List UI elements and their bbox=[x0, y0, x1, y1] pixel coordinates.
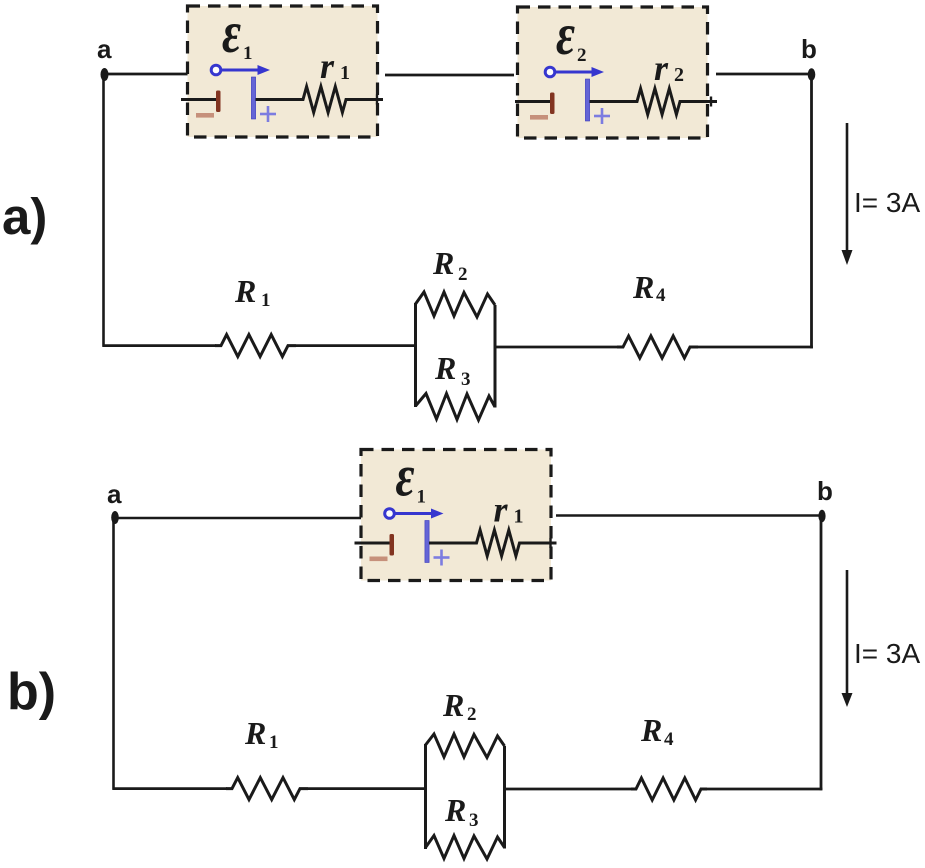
node a dot (circuit b) bbox=[111, 511, 119, 524]
battery negative plate (brick bar) bbox=[216, 91, 221, 113]
node b dot (circuit a) bbox=[808, 68, 816, 80]
minus sign (brick) bbox=[196, 113, 214, 118]
battery negative lead wire bbox=[181, 98, 217, 101]
svg-text:3: 3 bbox=[469, 810, 479, 831]
svg-text:r: r bbox=[494, 490, 509, 530]
bottom branch wire left (circuit a) bbox=[103, 344, 217, 347]
EMF box background and dashed border bbox=[361, 450, 551, 581]
svg-text:b: b bbox=[817, 476, 833, 506]
svg-text:R: R bbox=[234, 273, 256, 309]
svg-text:2: 2 bbox=[458, 264, 468, 285]
EMF source 2 (epsilon2, r2) bbox=[515, 3, 717, 138]
svg-text:r: r bbox=[320, 46, 335, 86]
wire left vertical (circuit b) bbox=[112, 520, 115, 790]
battery positive plate (blue bar) bbox=[425, 521, 429, 563]
svg-text:a): a) bbox=[2, 188, 47, 245]
battery negative lead wire bbox=[355, 542, 391, 545]
emf direction arrow (blue) bbox=[545, 67, 555, 77]
EMF source 1 (epsilon1, r1) bbox=[181, 1, 383, 137]
wire R4 to right vertical (circuit b) bbox=[707, 788, 822, 791]
wire R4 to right vertical (circuit a) bbox=[698, 346, 813, 349]
svg-text:2: 2 bbox=[467, 704, 477, 725]
svg-text:r: r bbox=[654, 48, 669, 88]
internal resistance lead and zigzag r1 bbox=[429, 542, 477, 545]
wire EMF box to node b (circuit b) bbox=[556, 514, 820, 517]
emf direction arrow (blue) bbox=[211, 65, 221, 75]
svg-text:a: a bbox=[97, 34, 112, 64]
wire parallel block to R4 (circuit a) bbox=[495, 346, 618, 349]
svg-text:1: 1 bbox=[417, 487, 427, 508]
parallel block right vertical (circuit b) bbox=[503, 746, 506, 849]
wire right vertical (circuit b) bbox=[820, 519, 823, 790]
battery negative plate (brick bar) bbox=[390, 534, 395, 556]
emf label epsilon 1 bbox=[222, 1, 241, 65]
resistor R4 (circuit a) bbox=[617, 336, 698, 358]
emf direction arrow (blue) bbox=[385, 509, 395, 519]
svg-text:1: 1 bbox=[261, 290, 271, 311]
minus sign (brick) bbox=[530, 115, 548, 120]
plus sign (blue) bbox=[594, 115, 610, 118]
svg-text:2: 2 bbox=[674, 64, 684, 86]
svg-text:R: R bbox=[632, 269, 654, 305]
minus sign (brick) bbox=[370, 557, 388, 562]
plus sign (blue) bbox=[434, 556, 450, 559]
svg-text:1: 1 bbox=[243, 43, 253, 64]
svg-text:ε: ε bbox=[556, 3, 575, 67]
wire R1 to parallel block (circuit a) bbox=[296, 344, 416, 347]
EMF box background and dashed border bbox=[518, 7, 708, 138]
bottom branch wire left (circuit b) bbox=[113, 787, 228, 790]
resistor R4 (circuit b) bbox=[631, 778, 707, 800]
resistor R1 (circuit b) bbox=[226, 778, 308, 800]
wire node a to EMF box (circuit b) bbox=[117, 517, 362, 520]
svg-text:3: 3 bbox=[461, 369, 471, 390]
parallel block left vertical (circuit a) bbox=[414, 303, 417, 407]
svg-text:a: a bbox=[107, 479, 122, 509]
current arrow (circuit a) bbox=[846, 123, 849, 253]
parallel block left vertical (circuit b) bbox=[424, 744, 427, 849]
svg-text:4: 4 bbox=[656, 285, 666, 306]
resistor R2 zigzag top branch (circuit a) bbox=[416, 292, 496, 317]
wire between EMF boxes bbox=[385, 74, 514, 77]
svg-text:I= 3A: I= 3A bbox=[854, 187, 920, 218]
node b dot (circuit b) bbox=[818, 510, 825, 522]
battery negative plate (brick bar) bbox=[550, 93, 555, 115]
svg-text:R: R bbox=[442, 687, 464, 723]
svg-text:4: 4 bbox=[664, 729, 674, 750]
current arrow (circuit b) bbox=[846, 570, 849, 696]
wire left vertical (circuit a) bbox=[102, 77, 105, 347]
wire parallel block to R4 (circuit b) bbox=[505, 788, 633, 791]
battery positive plate (blue bar) bbox=[585, 79, 589, 121]
svg-text:2: 2 bbox=[577, 45, 587, 66]
svg-text:R: R bbox=[432, 245, 454, 281]
plus sign (blue) bbox=[260, 113, 276, 116]
svg-text:R: R bbox=[640, 712, 662, 748]
resistor R3 zigzag bottom branch (circuit b) bbox=[426, 836, 505, 860]
resistor R3 zigzag bottom branch (circuit a) bbox=[416, 394, 496, 421]
emf label epsilon 1 bbox=[396, 444, 415, 508]
EMF box background and dashed border bbox=[188, 6, 378, 137]
svg-text:R: R bbox=[434, 350, 456, 386]
emf label epsilon 2 bbox=[556, 3, 575, 67]
wire EMF box 2 to node b bbox=[716, 73, 810, 76]
EMF source (epsilon1, r1) (circuit b) bbox=[355, 444, 557, 580]
svg-text:I= 3A: I= 3A bbox=[854, 638, 920, 669]
svg-text:1: 1 bbox=[340, 62, 350, 84]
svg-text:b): b) bbox=[7, 663, 56, 721]
internal resistance lead and zigzag r1 bbox=[256, 98, 304, 101]
svg-text:b: b bbox=[801, 34, 817, 64]
battery positive plate (blue bar) bbox=[251, 77, 255, 119]
resistor R2 zigzag top branch (circuit b) bbox=[426, 734, 505, 758]
svg-text:1: 1 bbox=[514, 506, 524, 528]
svg-text:ε: ε bbox=[222, 1, 241, 65]
svg-text:ε: ε bbox=[396, 444, 415, 508]
internal resistance lead and zigzag r2 bbox=[590, 100, 638, 103]
wire node a to EMF box 1 bbox=[106, 73, 188, 76]
svg-text:1: 1 bbox=[269, 732, 279, 753]
node a dot (circuit a) bbox=[101, 68, 109, 81]
parallel block right vertical (circuit a) bbox=[494, 305, 497, 408]
resistor R1 (circuit a) bbox=[215, 335, 296, 357]
wire R1 to parallel block (circuit b) bbox=[308, 787, 426, 790]
battery negative lead wire bbox=[515, 100, 551, 103]
wire right vertical (circuit a) bbox=[810, 77, 813, 348]
svg-text:R: R bbox=[444, 792, 466, 828]
svg-text:R: R bbox=[244, 715, 266, 751]
